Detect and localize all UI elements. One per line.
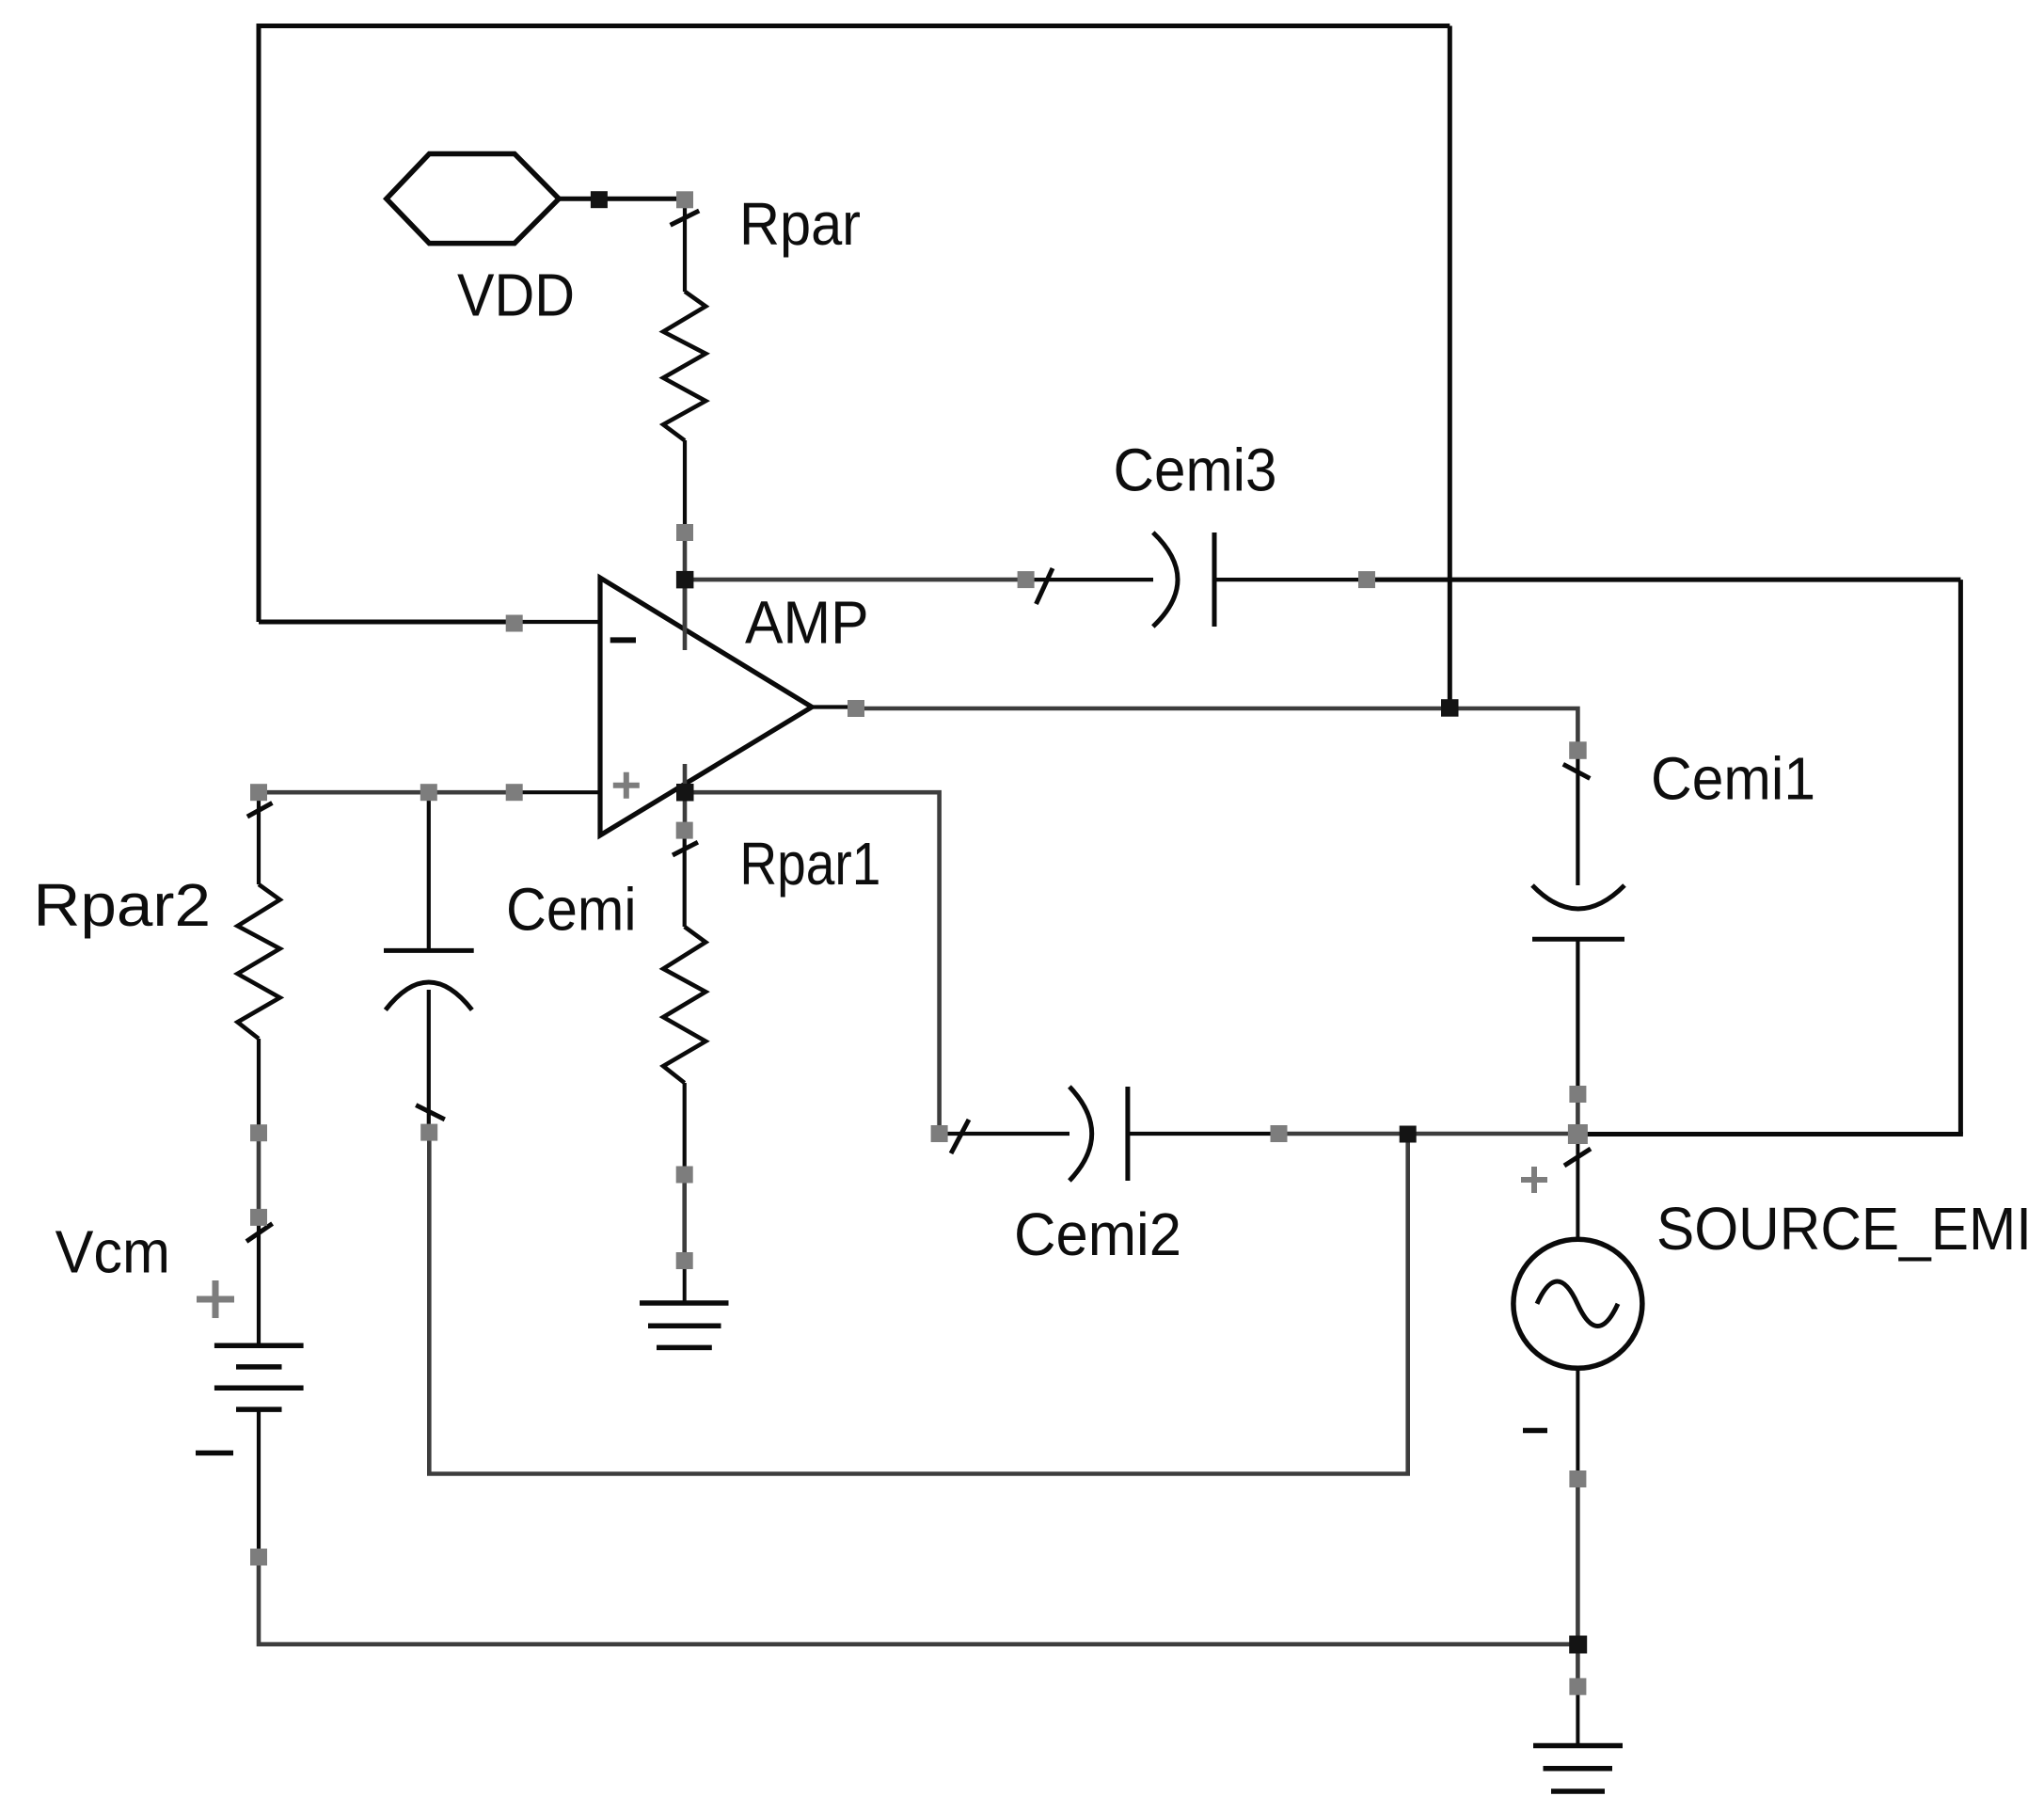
svg-text:AMP: AMP — [745, 589, 869, 657]
svg-text:Rpar: Rpar — [739, 190, 861, 258]
svg-text:Cemi: Cemi — [506, 876, 637, 944]
svg-text:Rpar2: Rpar2 — [33, 871, 211, 939]
svg-text:Cemi1: Cemi1 — [1651, 744, 1815, 812]
svg-text:Vcm: Vcm — [55, 1218, 170, 1286]
svg-text:Rpar1: Rpar1 — [739, 830, 880, 898]
svg-text:Cemi2: Cemi2 — [1014, 1200, 1181, 1268]
svg-text:Cemi3: Cemi3 — [1114, 437, 1277, 504]
svg-text:SOURCE_EMI: SOURCE_EMI — [1656, 1195, 2032, 1263]
svg-text:VDD: VDD — [457, 262, 575, 329]
